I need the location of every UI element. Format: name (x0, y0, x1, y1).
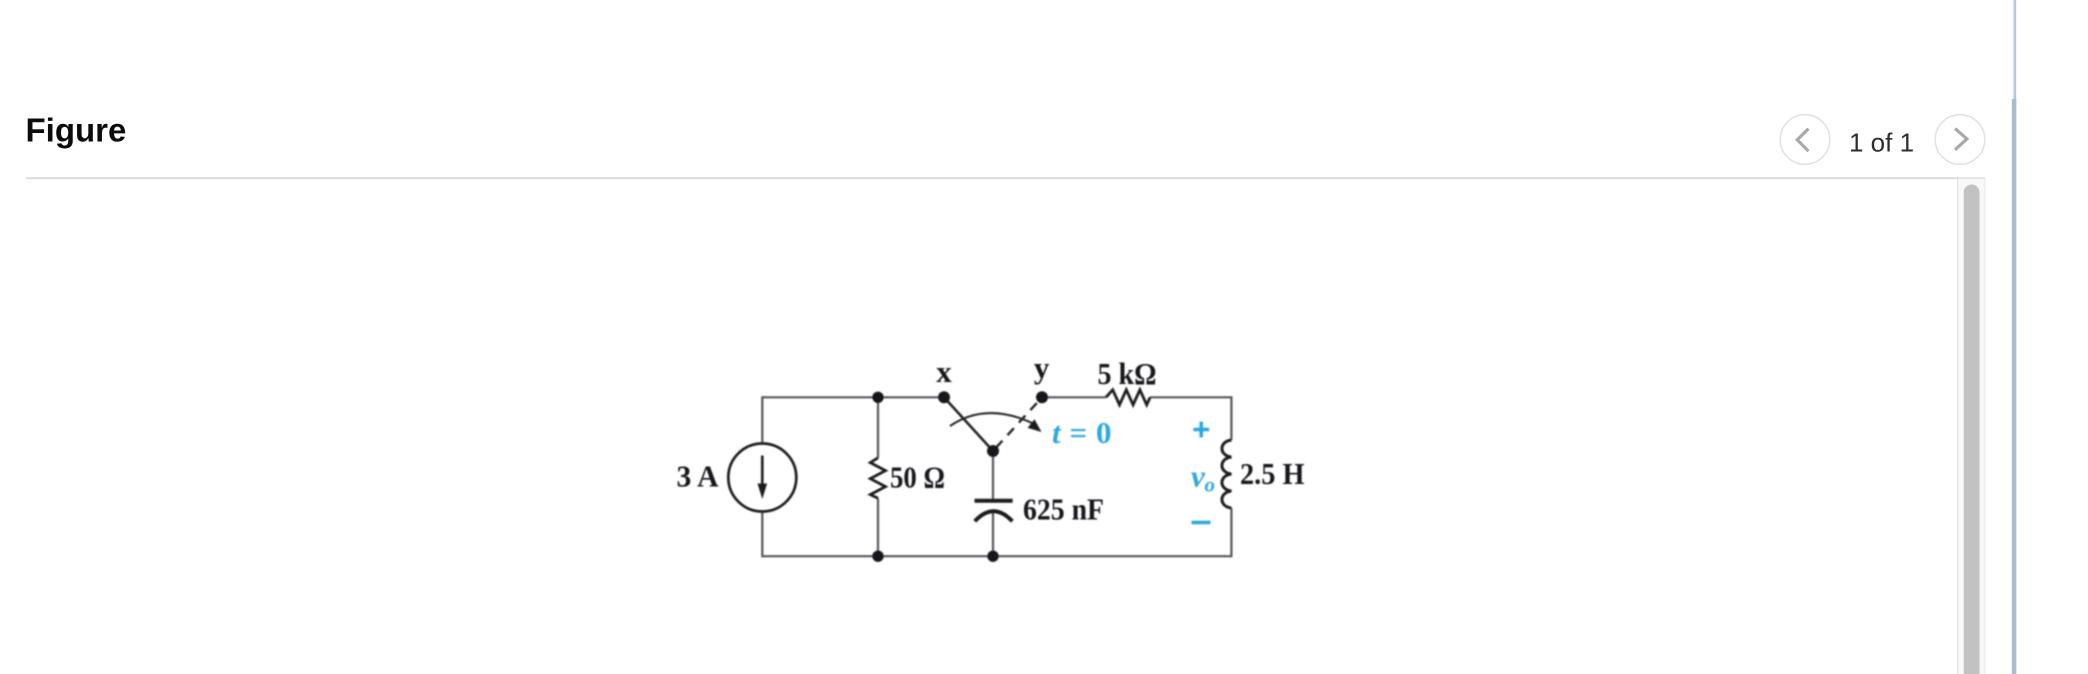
node x dot (938, 391, 950, 403)
current source I1 circle (728, 444, 796, 512)
wire: top rail left segment (762, 396, 944, 398)
capacitor C1 top plate (975, 499, 1013, 503)
nav prev chevron (1797, 129, 1808, 152)
outer page scrollbar track line (2014, 0, 2017, 99)
wire: bottom rail (762, 555, 1231, 557)
svg-text:625 nF: 625 nF (1023, 492, 1104, 527)
wire: left rail below source (761, 511, 763, 557)
wire: 50 ohm branch upper (877, 397, 879, 458)
nav next button circle (1935, 115, 1985, 165)
svg-text:Figure: Figure (26, 112, 127, 149)
nav next chevron (1955, 129, 1967, 150)
junction node dot bottom of capacitor (987, 551, 998, 562)
capacitor C1 curved plate (975, 511, 1013, 521)
svg-text:t: t (1052, 415, 1062, 450)
svg-text:x: x (936, 354, 952, 389)
junction node dot bottom of 50 ohm (872, 551, 883, 562)
switch blade from node x (944, 397, 993, 451)
current source arrow (761, 456, 764, 487)
svg-text:y: y (1034, 350, 1050, 385)
wire: 50 ohm branch lower (877, 498, 879, 556)
svg-text:50 Ω: 50 Ω (890, 459, 945, 494)
figure panel scrollbar track (1957, 179, 1958, 674)
wire: capacitor branch lower (992, 512, 994, 557)
outer page scrollbar thumb (2012, 99, 2017, 674)
label minus sign (1192, 521, 1211, 525)
wire: right rail above inductor (1230, 396, 1232, 440)
svg-text:2.5 H: 2.5 H (1240, 456, 1305, 491)
switch pivot dot (987, 445, 999, 457)
svg-text:0: 0 (1096, 415, 1112, 450)
switch dashed throw toward node y (996, 401, 1039, 448)
figure panel scrollbar thumb (1964, 185, 1980, 674)
svg-text:=: = (1070, 415, 1088, 450)
node y dot (1036, 391, 1048, 403)
horizontal divider (26, 177, 1985, 179)
svg-text:3 A: 3 A (677, 459, 720, 494)
resistor R1 50 ohm zigzag (870, 458, 885, 499)
svg-text:5 kΩ: 5 kΩ (1098, 356, 1157, 391)
junction node dot top of 50 ohm (872, 392, 883, 403)
switch motion arc (950, 413, 1032, 426)
wire: capacitor branch upper (992, 451, 994, 499)
label plus sign (1193, 422, 1209, 438)
inductor L1 coil (1222, 440, 1231, 508)
nav prev button circle (1780, 115, 1830, 165)
resistor R2 5 kilohm zigzag (1106, 390, 1150, 405)
wire: left rail above source (761, 396, 763, 444)
svg-text:1 of 1: 1 of 1 (1849, 127, 1914, 157)
switch arrowhead (1028, 419, 1042, 432)
wire: top rail right segment (5k resistor to corner) (1150, 396, 1231, 398)
wire: right rail below inductor (1230, 508, 1232, 557)
svg-text:o: o (1205, 473, 1216, 497)
wire: top rail right segment (y node to 5k resistor) (1042, 396, 1106, 398)
